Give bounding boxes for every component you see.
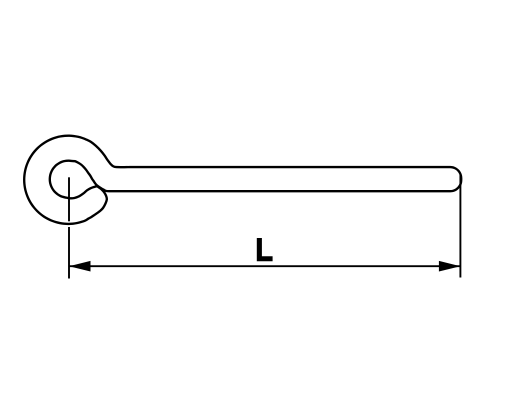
left arrowhead xyxy=(69,261,91,272)
eye pin body outline xyxy=(24,136,461,224)
extension line right xyxy=(459,174,461,278)
dimension line xyxy=(69,265,460,267)
right arrowhead xyxy=(439,261,461,272)
label L xyxy=(257,238,273,261)
extension line left (from eye center) xyxy=(68,177,70,221)
